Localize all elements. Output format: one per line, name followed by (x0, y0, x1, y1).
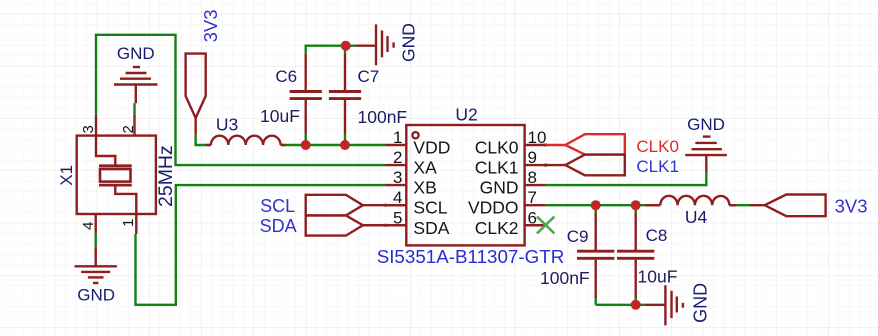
svg-text:SI5351A-B11307-GTR: SI5351A-B11307-GTR (377, 246, 565, 267)
wire U3 to U2 pin 1 (VDD net) (281, 144, 386, 146)
svg-text:C9: C9 (567, 227, 589, 246)
svg-text:2: 2 (393, 148, 402, 167)
ground symbol GND at X1 pin 4 (bottom-left) (75, 246, 117, 283)
wire U2 pin 7 VDDO net to U4 (546, 204, 661, 206)
no-connect X at U2 pin 6 (537, 217, 554, 234)
svg-text:VDD: VDD (413, 138, 450, 158)
svg-text:CLK1: CLK1 (475, 158, 519, 178)
svg-text:U2: U2 (455, 105, 477, 125)
power flag 3V3 (top-left, pointing down) (186, 54, 206, 135)
svg-text:CLK0: CLK0 (636, 137, 679, 156)
svg-text:CLK1: CLK1 (636, 157, 679, 176)
wire end dot at U2 pin 5 (384, 224, 387, 227)
ground symbol GND near CLK flags (inverted) (685, 137, 727, 172)
svg-text:X1: X1 (57, 165, 76, 186)
svg-text:100nF: 100nF (358, 107, 408, 127)
wire C6 top lead stub (305, 45, 307, 54)
svg-text:10uF: 10uF (260, 106, 300, 126)
svg-text:C6: C6 (275, 67, 297, 86)
svg-text:9: 9 (528, 148, 537, 167)
capacitor C7 (329, 53, 361, 133)
inductor U4 (645, 196, 736, 205)
wire C7 top lead stub (344, 45, 346, 54)
wire C8 bottom lead stub (635, 298, 637, 305)
hierarchical flag SCL (306, 195, 407, 216)
svg-text:C8: C8 (646, 226, 668, 245)
svg-text:CLK0: CLK0 (475, 138, 519, 158)
svg-text:GND: GND (399, 23, 419, 62)
wire C6 top rail to GND (306, 45, 356, 47)
svg-text:SCL: SCL (413, 198, 447, 218)
wire C8 top lead stub (635, 205, 637, 212)
svg-text:1: 1 (393, 128, 402, 147)
svg-text:SDA: SDA (260, 216, 297, 236)
svg-text:10uF: 10uF (638, 266, 678, 286)
svg-text:100nF: 100nF (540, 268, 590, 288)
capacitor C6 (290, 53, 322, 133)
svg-text:C7: C7 (358, 67, 380, 86)
junction dot C8 at bottom GND wire (631, 300, 641, 310)
IC U2 SI5351A (386, 125, 546, 245)
svg-text:10: 10 (528, 128, 547, 147)
svg-text:3: 3 (80, 125, 97, 133)
junction dot C9 at VDDO wire (591, 200, 601, 210)
svg-text:CLK2: CLK2 (475, 218, 519, 238)
wire X1 pin 2 to GND (133, 103, 135, 115)
capacitor C8 (617, 212, 654, 298)
wire net XB from X1 pin 1 to U2 pin 3 (136, 185, 386, 305)
svg-text:XA: XA (413, 158, 437, 178)
wire 3V3 flag to U3 (196, 135, 211, 145)
svg-text:3: 3 (393, 168, 402, 187)
junction dot C7 at top GND rail (341, 41, 351, 51)
svg-text:VDDO: VDDO (468, 198, 519, 218)
wire C9 bottom lead stub (595, 298, 597, 305)
svg-text:4: 4 (80, 222, 97, 230)
svg-text:SCL: SCL (260, 196, 295, 216)
svg-text:3V3: 3V3 (200, 9, 221, 42)
hierarchical flag SDA (306, 215, 407, 235)
svg-text:1: 1 (120, 219, 137, 227)
svg-text:SDA: SDA (413, 218, 449, 238)
wire end dot at U2 pin 10 (544, 144, 547, 147)
svg-text:2: 2 (120, 125, 137, 133)
svg-text:3V3: 3V3 (835, 195, 868, 216)
U2 pin 1 indicator circle (412, 132, 418, 138)
hierarchical flag CLK1 (546, 155, 625, 176)
svg-text:25MHz: 25MHz (155, 145, 177, 207)
wire C9 top lead stub (595, 205, 597, 212)
wire X1 pin 4 to GND (94, 234, 96, 246)
svg-text:GND: GND (117, 44, 155, 63)
wire U4 to 3V3 flag (729, 204, 753, 206)
svg-text:8: 8 (528, 168, 537, 187)
wire C9 bottom to C8 bottom to GND (596, 304, 646, 306)
crystal X1 (77, 115, 156, 234)
wire net XA from X1 pin 3 to U2 pin 2 (96, 35, 386, 165)
wire U2 pin 8 GND net (546, 172, 707, 186)
ground symbol GND at X1 pin 2 (top-left, inverted) (114, 67, 158, 103)
wire C6 bottom lead stub (305, 133, 307, 145)
junction dot C7 at VDD wire (340, 140, 350, 150)
wire end dot at U2 pin 4 (384, 204, 387, 207)
junction dot C8 at VDDO wire (631, 200, 641, 210)
svg-text:GND: GND (687, 115, 725, 134)
inductor U3 (206, 136, 286, 145)
svg-text:GND: GND (691, 283, 711, 323)
ground symbol GND top-right of C7 (pointing right) (356, 24, 394, 65)
ground symbol GND bottom-right (pointing right) (646, 285, 683, 325)
svg-text:GND: GND (77, 286, 115, 305)
hierarchical flag CLK0 (highlighted red) (546, 134, 625, 154)
svg-text:7: 7 (528, 188, 537, 207)
capacitor C9 (577, 212, 614, 298)
junction dot C6 at VDD wire (301, 140, 311, 150)
power flag 3V3 (right, pointing left) (751, 195, 826, 217)
wire C7 bottom lead stub (344, 133, 346, 145)
svg-text:U4: U4 (685, 207, 708, 227)
svg-text:GND: GND (480, 178, 519, 198)
svg-text:U3: U3 (216, 114, 238, 134)
wire end dot at U2 pin 9 (544, 164, 547, 167)
svg-text:XB: XB (413, 178, 436, 198)
svg-text:6: 6 (528, 208, 537, 227)
